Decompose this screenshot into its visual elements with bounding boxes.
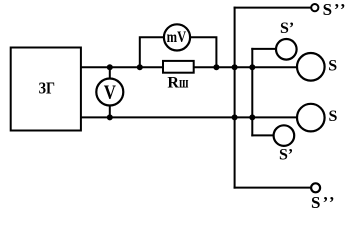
wire lower S' horizontal <box>252 134 273 136</box>
svg-text:S’: S’ <box>279 146 293 163</box>
junction bus2 top wire <box>249 64 255 70</box>
resistor Rsh <box>163 61 194 92</box>
wire bottom main (generator to lower winding S) <box>81 116 297 118</box>
millivoltmeter mV <box>164 24 190 50</box>
winding S upper <box>297 53 337 81</box>
svg-text:ЗГ: ЗГ <box>39 79 56 98</box>
junction V top <box>107 64 113 70</box>
svg-text:S: S <box>329 108 338 125</box>
generator box ZG <box>11 48 81 131</box>
svg-text:S: S <box>328 57 337 74</box>
wire top S'' horizontal <box>235 7 312 9</box>
junction bus2 bottom wire <box>249 114 255 120</box>
voltmeter V <box>96 79 123 106</box>
junction mV left <box>137 64 143 70</box>
wire bottom S'' horizontal <box>235 187 312 189</box>
junction bus1 top wire <box>232 64 238 70</box>
winding S lower <box>297 104 338 132</box>
junction bus1 bottom wire <box>232 114 238 120</box>
svg-text:V: V <box>104 82 117 104</box>
svg-text:S’: S’ <box>280 20 294 37</box>
winding S' upper <box>276 20 297 59</box>
wire voltmeter vertical <box>109 67 111 117</box>
svg-text:Rш: Rш <box>167 74 188 91</box>
winding S' lower <box>274 125 295 163</box>
terminal S'' bottom <box>311 183 335 212</box>
wire bus 1 vertical (S'' to S'') <box>234 8 236 188</box>
junction V bottom <box>107 114 113 120</box>
wire upper S' horizontal <box>252 48 276 50</box>
svg-text:mV: mV <box>167 29 187 46</box>
wire mV branch (left up, across, right down) <box>140 37 217 67</box>
wire bus 2 vertical (S' to S') <box>251 49 253 135</box>
svg-text:S’’: S’’ <box>323 0 346 19</box>
terminal S'' top <box>311 0 345 19</box>
svg-text:S’’: S’’ <box>311 193 335 212</box>
wire top main (generator to upper winding S) <box>81 66 297 68</box>
junction mV right <box>213 64 219 70</box>
